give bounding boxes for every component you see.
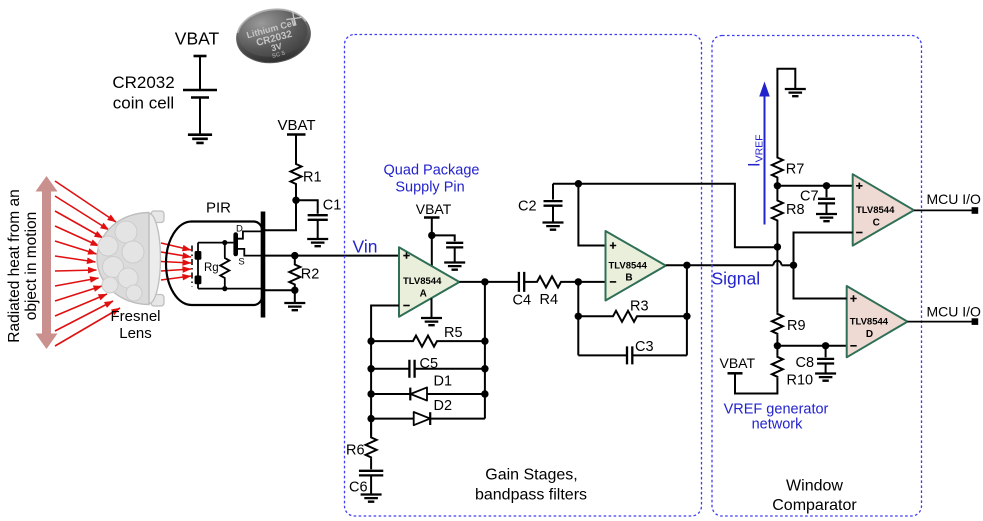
focused rays (lens to PIR): [161, 243, 191, 280]
resistor R1: [291, 163, 302, 185]
resistor R3: [578, 315, 611, 317]
wire C output to MCU: [914, 209, 972, 211]
wire inverting input A: [371, 306, 399, 342]
svg-text:R7: R7: [786, 162, 805, 178]
node Signal: [790, 262, 797, 269]
svg-text:Window: Window: [786, 478, 843, 495]
svg-text:Fresnel: Fresnel: [110, 308, 160, 325]
svg-text:VREF generator: VREF generator: [724, 402, 829, 418]
node A output: [481, 278, 488, 285]
wire B non-inverting input: [578, 184, 605, 246]
node supply junction: [428, 232, 435, 239]
node R2 bottom: [291, 287, 298, 294]
svg-text:R4: R4: [540, 292, 559, 308]
svg-text:TLV8544: TLV8544: [403, 276, 442, 287]
svg-text:VBAT: VBAT: [720, 355, 756, 371]
svg-text:Comparator: Comparator: [772, 497, 857, 514]
wire source Vin line: [263, 255, 399, 257]
op-amp U1A TLV8544: [399, 247, 459, 316]
resistor Rg: [224, 243, 226, 257]
capacitor C7: [823, 182, 830, 189]
resistor R6: [370, 419, 372, 437]
node R8 bottom / VREF mid: [774, 243, 781, 250]
svg-text:C3: C3: [635, 339, 654, 355]
wire D output to MCU: [908, 321, 973, 323]
wire element top: [198, 242, 233, 244]
svg-text:TLV8544: TLV8544: [856, 205, 895, 216]
svg-text:C2: C2: [518, 199, 537, 215]
wire B feedback left: [577, 282, 579, 356]
double arrow (heat span): [36, 176, 58, 349]
svg-text:MCU I/O: MCU I/O: [927, 304, 982, 320]
svg-text:R1: R1: [303, 170, 322, 186]
wire C inverting input: [794, 233, 853, 266]
wire VREF low to D-: [777, 345, 846, 347]
PIR sensor package: [166, 222, 262, 306]
svg-text:C8: C8: [796, 355, 815, 371]
svg-text:A: A: [420, 289, 427, 300]
wire divider top to ground: [777, 69, 795, 157]
svg-text:Lens: Lens: [119, 325, 152, 342]
svg-text:B: B: [625, 273, 632, 284]
svg-text:R5: R5: [444, 325, 463, 341]
svg-text:bandpass filters: bandpass filters: [475, 487, 587, 504]
svg-text:D1: D1: [434, 374, 453, 390]
svg-text:C4: C4: [513, 293, 532, 309]
resistor R4: [535, 276, 563, 287]
svg-text:R3: R3: [630, 299, 649, 315]
ground (C6): [361, 495, 382, 502]
node R1/C1/drain junction: [292, 197, 299, 204]
resistor R5: [371, 340, 411, 342]
svg-text:D2: D2: [434, 398, 453, 414]
pyroelectric element: [197, 243, 199, 289]
op-amp U1D TLV8544: [847, 286, 908, 357]
capacitor C1: [296, 200, 318, 213]
svg-text:C1: C1: [323, 198, 342, 214]
resistor R7: [772, 157, 783, 179]
Fresnel lens: [97, 211, 164, 306]
svg-text:C5: C5: [420, 356, 439, 372]
transistor JFET (PIR internal): [233, 235, 238, 255]
current arrow IVREF: [764, 95, 766, 225]
svg-text:R9: R9: [787, 318, 806, 334]
svg-text:Supply Pin: Supply Pin: [395, 180, 464, 196]
svg-text:VBAT: VBAT: [277, 117, 315, 134]
svg-text:R10: R10: [787, 373, 814, 389]
wire hop over VREF line: [773, 261, 781, 266]
svg-text:R2: R2: [301, 267, 320, 283]
svg-text:VBAT: VBAT: [416, 201, 452, 217]
wire B output / Signal: [666, 264, 774, 266]
wire op-amp A output: [459, 281, 518, 283]
node VREF high: [774, 182, 781, 189]
ground (battery): [188, 135, 212, 143]
svg-text:coin cell: coin cell: [113, 94, 174, 113]
svg-text:R8: R8: [786, 202, 805, 218]
wire VREF high to C+: [777, 185, 852, 187]
svg-text:Vin: Vin: [353, 237, 378, 257]
gain stages dashed box: [345, 35, 702, 517]
svg-text:MCU I/O: MCU I/O: [927, 191, 982, 207]
svg-text:TLV8544: TLV8544: [609, 261, 648, 272]
window comparator dashed box: [712, 36, 922, 517]
resistor R8: [776, 186, 778, 200]
capacitor C5: [371, 368, 409, 370]
wire B feedback right: [686, 265, 688, 355]
svg-text:Signal: Signal: [712, 269, 761, 289]
ground (divider top): [785, 89, 806, 96]
wire PIR ground return: [263, 290, 295, 302]
svg-text:TLV8544: TLV8544: [850, 317, 889, 328]
node VREF to B+: [575, 180, 582, 187]
capacitor C6: [370, 458, 372, 469]
radiated heat rays (left fan): [55, 181, 120, 346]
svg-text:PIR: PIR: [206, 200, 231, 217]
op-amp U1B TLV8544: [606, 231, 666, 301]
node Vin/R2: [291, 252, 298, 259]
wire feedback left rail: [370, 341, 372, 436]
wire D non-inverting input: [794, 265, 847, 298]
wire drain to node: [263, 200, 296, 230]
svg-text:C6: C6: [349, 480, 368, 496]
capacitor C4: [519, 272, 524, 292]
svg-text:Gain Stages,: Gain Stages,: [485, 467, 578, 484]
svg-text:D: D: [866, 329, 873, 340]
wire VREF rail: [553, 184, 777, 248]
svg-text:D: D: [236, 223, 243, 234]
svg-text:VBAT: VBAT: [175, 29, 220, 49]
battery CR2032 coin cell symbol: [183, 56, 217, 134]
capacitor C8: [822, 342, 829, 349]
svg-text:network: network: [752, 417, 804, 433]
capacitor C3: [578, 354, 627, 356]
svg-text:S: S: [238, 257, 244, 268]
svg-text:Quad Package: Quad Package: [384, 163, 480, 179]
resistor R9: [772, 313, 783, 335]
svg-text:CR2032: CR2032: [112, 73, 174, 92]
diode D1: [371, 393, 410, 395]
svg-text:C: C: [873, 218, 880, 229]
ground (op-amp A): [431, 298, 433, 317]
svg-text:R6: R6: [346, 443, 365, 459]
ground (R2): [284, 303, 305, 310]
wire element bottom: [198, 288, 263, 290]
wire R1 to node: [295, 185, 297, 200]
op-amp U1C TLV8544: [853, 174, 914, 245]
svg-text:Rg: Rg: [204, 262, 219, 274]
capacitor (supply decoupling): [432, 235, 455, 241]
node B inverting input: [575, 278, 582, 285]
wire supply: [431, 218, 433, 267]
CR2032 coin cell photo: [233, 4, 314, 67]
svg-text:object in motion: object in motion: [23, 212, 40, 321]
wire VBAT to R1: [295, 135, 297, 164]
wire R10 to VBAT: [735, 373, 777, 393]
PIR pin bar: [261, 212, 266, 318]
resistor R2: [294, 256, 296, 264]
svg-text:Radiated heat from an: Radiated heat from an: [6, 189, 23, 342]
resistor R10: [776, 346, 778, 356]
wire feedback right rail: [484, 282, 486, 419]
diode D2: [371, 418, 414, 420]
node VREF low: [774, 342, 781, 349]
